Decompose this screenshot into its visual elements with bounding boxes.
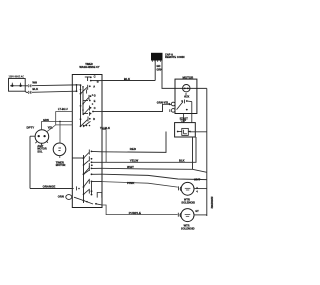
wire TN-BLK	[102, 129, 106, 162]
svg-text:PINK: PINK	[127, 181, 135, 185]
timer motor circle M2	[53, 143, 66, 156]
svg-text:GY: GY	[195, 211, 199, 213]
wire GRN-YEL from timer	[102, 104, 171, 111]
timer right edge bracket	[97, 193, 102, 198]
label MOTOR	[183, 75, 195, 79]
label GD GRN	[157, 64, 163, 71]
label CAP & REMOTE CONN	[165, 53, 185, 59]
orn terminal loop	[66, 195, 72, 200]
label BLK	[32, 87, 38, 91]
wire ORANGE	[30, 136, 74, 188]
svg-text:4: 4	[196, 190, 198, 193]
remote connector block	[151, 53, 163, 61]
label TN-BLK	[100, 126, 110, 130]
label ORN	[58, 194, 64, 198]
svg-text:RED: RED	[130, 147, 137, 151]
water solenoid 2	[181, 209, 194, 222]
K1 lead GRN	[41, 121, 43, 129]
svg-text:E: E	[94, 100, 96, 103]
svg-text:GRN: GRN	[157, 68, 163, 72]
K1 winding dots	[38, 135, 46, 137]
svg-text:DPTY: DPTY	[27, 125, 35, 129]
label WHT	[127, 165, 134, 169]
svg-text:22002362: 22002362	[210, 197, 214, 209]
label TIMER MOTOR	[56, 160, 66, 167]
label YELW	[130, 159, 139, 163]
svg-text:BLK: BLK	[179, 159, 185, 163]
wire WHT 1	[102, 168, 207, 172]
motor switch drop	[187, 101, 192, 123]
timer motor wires	[59, 121, 61, 158]
timer lower cluster dots	[83, 125, 91, 127]
svg-text:A: A	[93, 85, 95, 88]
label PINK	[127, 181, 135, 185]
svg-text:D: D	[93, 118, 95, 121]
solenoid 2 connector marks	[178, 213, 181, 217]
wire BLK motor feed	[162, 61, 207, 89]
wire BLK to connector	[102, 80, 155, 82]
svg-text:SOL: SOL	[37, 150, 43, 153]
label RED	[130, 147, 137, 151]
start cap box	[175, 123, 196, 137]
labels GRN YEL	[43, 118, 53, 130]
svg-text:GRN-YEL: GRN-YEL	[157, 101, 169, 105]
label BLK	[124, 77, 131, 81]
power cord label 120V	[9, 76, 25, 79]
timer contact group 4	[81, 117, 89, 127]
timer contact extra row u2	[83, 112, 89, 116]
label PURPLE	[129, 211, 141, 215]
K1 bottom labels	[37, 145, 46, 154]
K1 lead YEL	[47, 125, 56, 132]
solenoid 1 terminal texts	[196, 188, 198, 193]
wire A to timer	[42, 120, 73, 122]
wire YELW	[102, 137, 196, 162]
svg-text:ORANGE: ORANGE	[43, 184, 56, 188]
label WHT right	[194, 177, 200, 181]
timer contact extra row u1	[83, 90, 88, 101]
cap right link	[190, 131, 207, 133]
timer lower contact h3	[84, 166, 103, 174]
svg-text:C: C	[94, 75, 96, 79]
svg-text:MOTOR: MOTOR	[56, 163, 66, 167]
motor circle	[183, 85, 190, 92]
svg-text:WHT: WHT	[194, 177, 200, 181]
label AUX	[184, 96, 190, 99]
power cord box	[9, 79, 26, 92]
svg-text:SOLENOID: SOLENOID	[181, 227, 195, 231]
motor box	[175, 79, 197, 113]
timer orn contact	[74, 186, 93, 204]
label BLK 2	[179, 159, 185, 163]
solenoid 2 terminal texts	[195, 211, 199, 213]
wire WH from cord	[25, 84, 76, 87]
timer contact group 2	[83, 95, 89, 104]
motor ground loops	[171, 102, 175, 112]
label START CAP	[180, 117, 189, 122]
wire GRN drop 1	[154, 61, 156, 81]
svg-text:WASH-RINSE CY: WASH-RINSE CY	[79, 66, 99, 69]
timer lower contact h3b	[84, 180, 90, 187]
wire PINK	[102, 182, 178, 188]
motor winding dots	[184, 88, 189, 90]
motor start switch	[177, 93, 186, 110]
label WH	[32, 81, 37, 85]
cap link stub	[183, 114, 185, 123]
timer title	[79, 63, 99, 69]
label ORANGE	[43, 184, 56, 188]
svg-text:G: G	[94, 94, 96, 97]
svg-text:YELW: YELW	[130, 159, 139, 163]
water solenoid 1	[181, 182, 194, 195]
plug contacts	[10, 83, 25, 86]
svg-text:WH: WH	[32, 81, 37, 85]
wire WHT 2	[102, 174, 207, 179]
timer lower contact h2	[84, 162, 103, 174]
label WTR SOLENOID 2	[181, 223, 195, 230]
timer terminal labels C B	[94, 75, 99, 84]
timer contact group 1	[81, 85, 88, 94]
svg-text:BLK: BLK	[124, 77, 131, 81]
connector teeth	[152, 61, 160, 62]
label WTR SOLENOID 1	[181, 197, 195, 204]
svg-text:PURPLE: PURPLE	[129, 211, 141, 215]
svg-text:ORN: ORN	[58, 194, 64, 198]
timer lower extra row l1	[84, 156, 90, 165]
svg-text:AUX: AUX	[184, 96, 190, 99]
timer lower bus	[72, 155, 83, 203]
timer lower contact h4	[89, 174, 102, 194]
solenoid 2 right terminal	[193, 213, 207, 217]
solenoid 1 connector marks	[179, 186, 182, 190]
wire RED	[102, 132, 166, 153]
timer contact group 3	[83, 106, 89, 116]
wire BLK cap drop	[192, 137, 194, 169]
timer top contact	[85, 77, 102, 81]
motor loop numbers	[169, 103, 171, 112]
wire LT-BLU	[56, 111, 73, 125]
label GRN-YEL	[157, 101, 169, 105]
svg-text:REMOTE CONN: REMOTE CONN	[165, 55, 185, 59]
svg-text:SOLENOID: SOLENOID	[181, 201, 195, 205]
timer lower contact h1	[84, 150, 103, 159]
label LT-BLU	[58, 107, 68, 111]
svg-text:2: 2	[169, 110, 171, 113]
timer bus 1	[81, 85, 84, 127]
wire BLK from cord	[25, 91, 77, 94]
cap inner element	[178, 128, 190, 135]
timer box T1	[72, 75, 102, 208]
svg-text:LT-BLU: LT-BLU	[58, 107, 68, 111]
svg-text:TN-BLK: TN-BLK	[100, 126, 110, 130]
timer lower extra row l2	[84, 189, 90, 195]
svg-text:C: C	[94, 107, 96, 110]
K1 rim ticks	[30, 136, 48, 145]
svg-text:WHT: WHT	[127, 165, 134, 169]
part number vertical	[210, 197, 214, 209]
indicator component circle K1	[35, 130, 49, 144]
svg-text:BLK: BLK	[32, 87, 38, 91]
motor through wire right	[206, 88, 208, 216]
wire PURPLE	[102, 205, 178, 215]
svg-text:B: B	[97, 80, 99, 84]
label DPTY	[27, 125, 35, 129]
solenoid 1 right terminal	[193, 187, 206, 191]
